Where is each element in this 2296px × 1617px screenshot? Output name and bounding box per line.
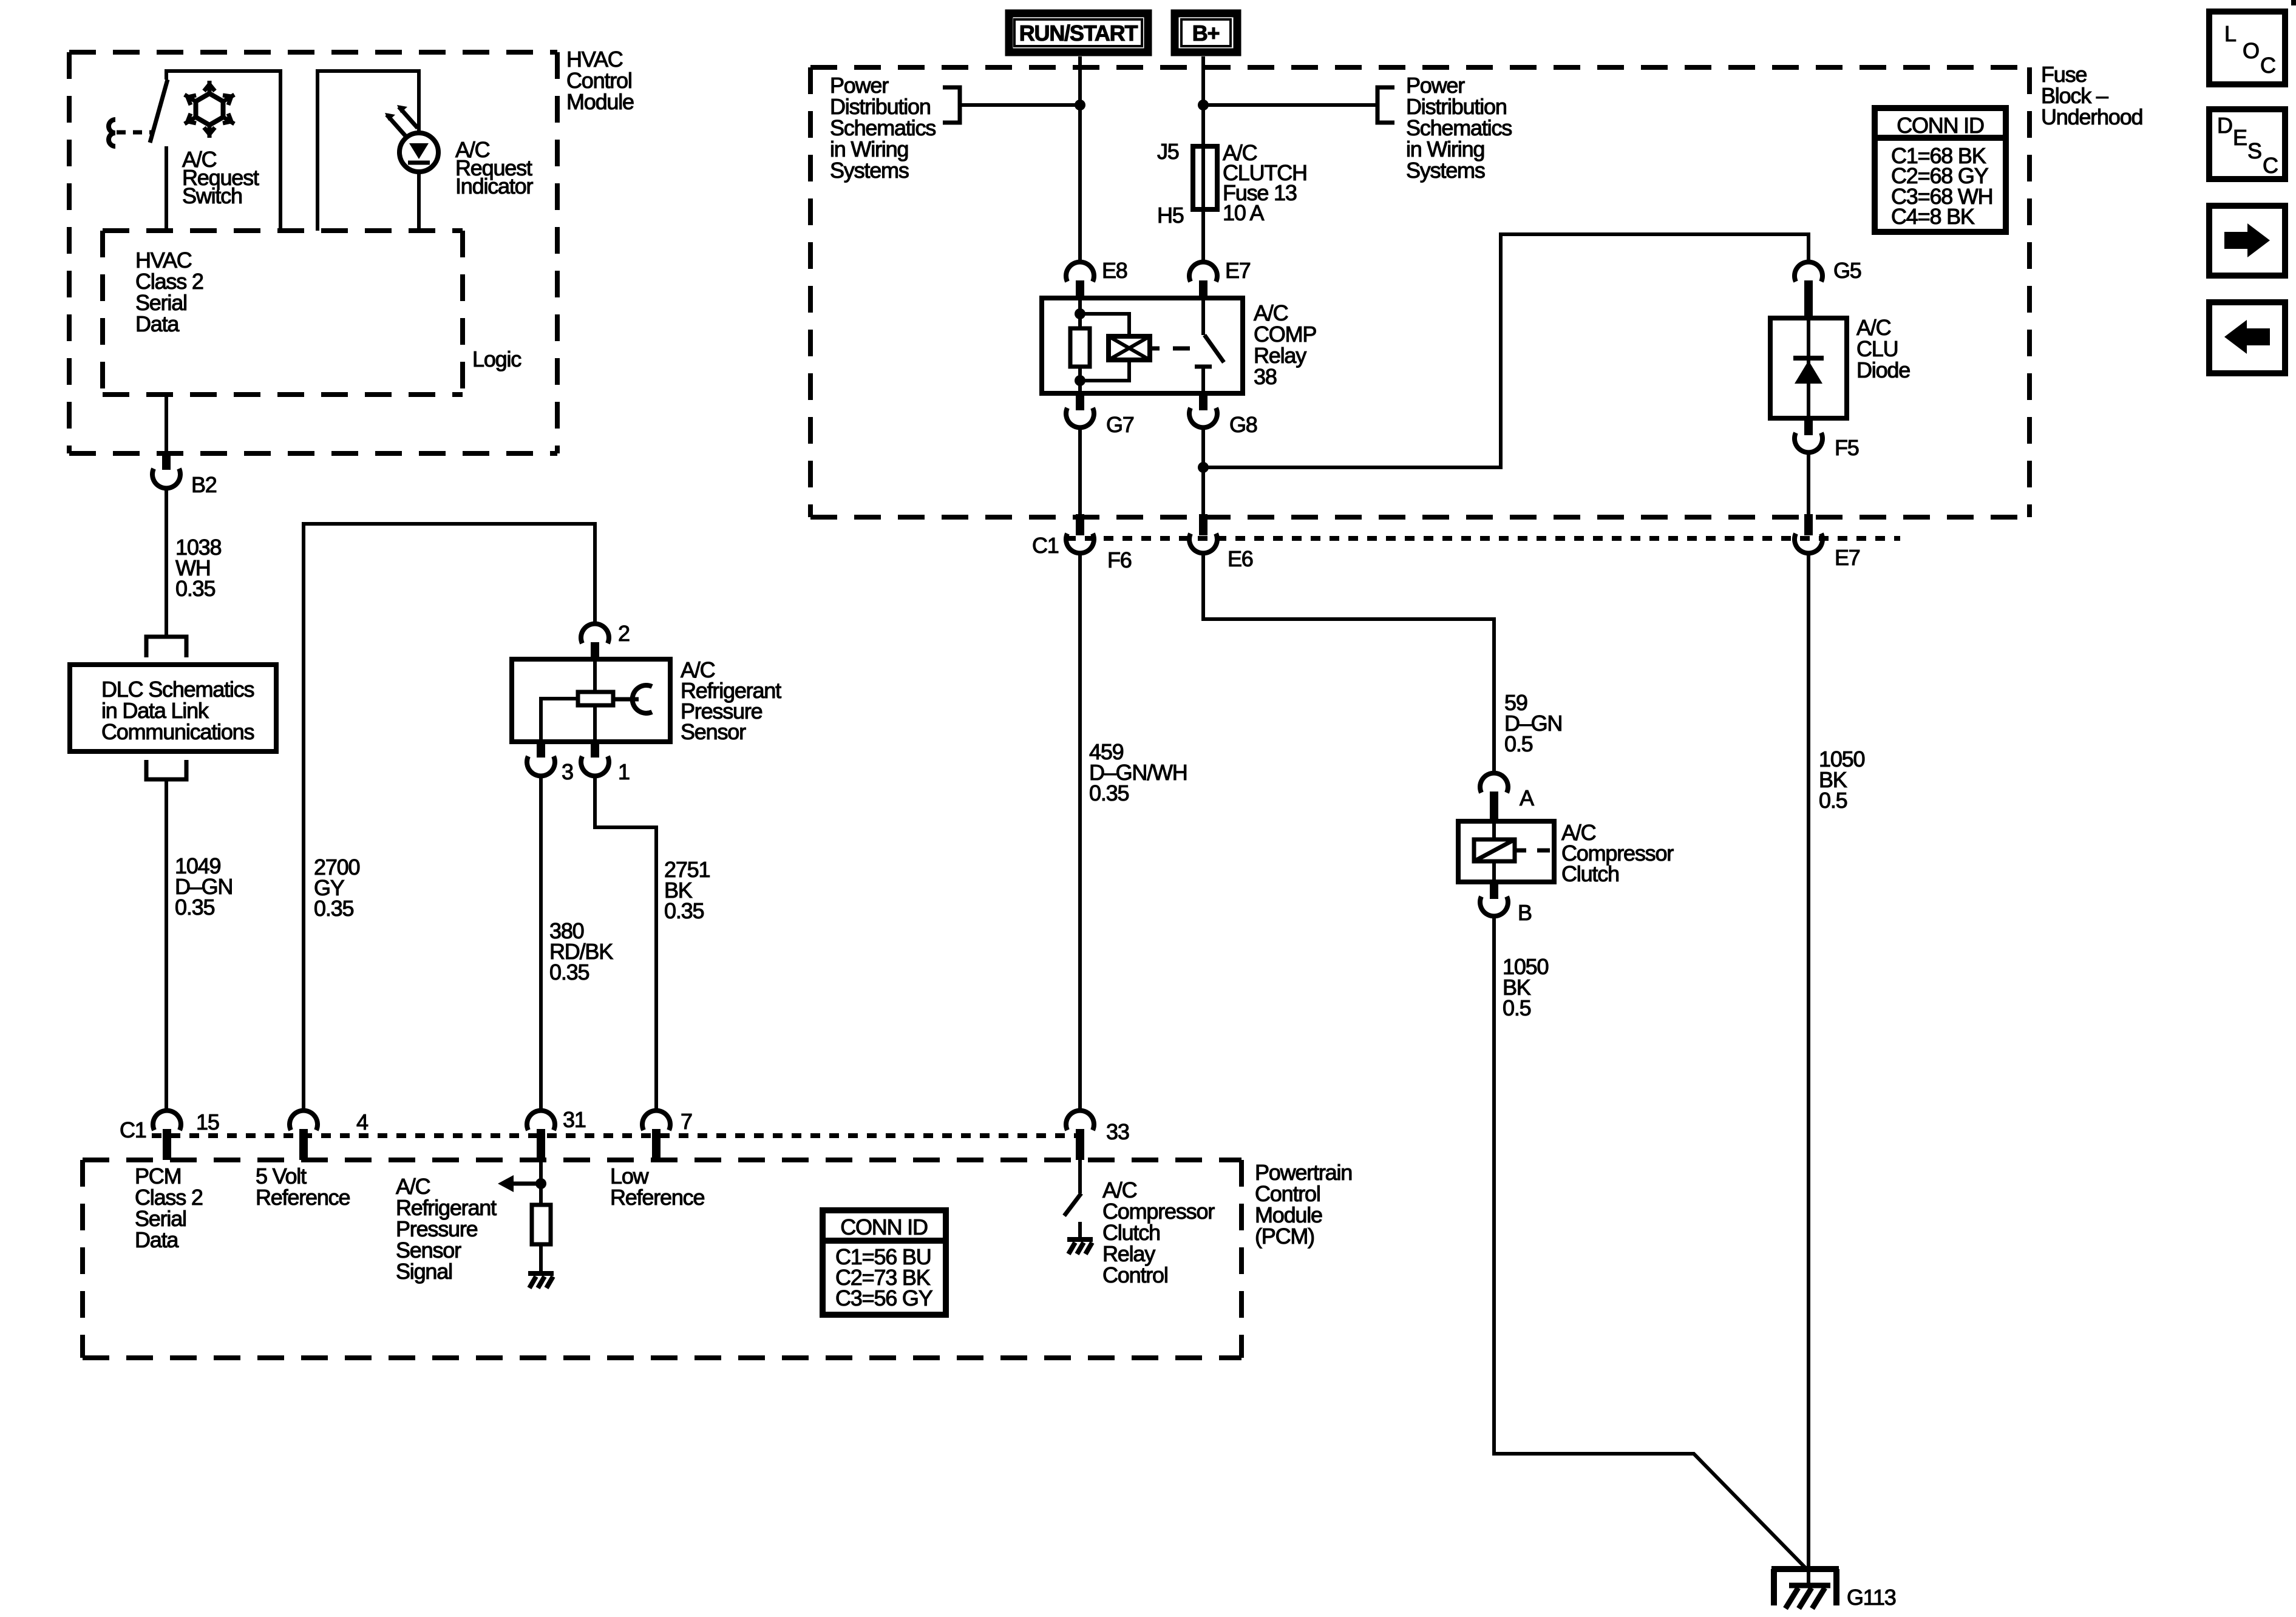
icon DESC bbox=[2209, 109, 2285, 179]
svg-text:3: 3 bbox=[562, 759, 573, 784]
wire 2700 GY 0.35 bbox=[304, 524, 595, 1111]
svg-text:O: O bbox=[2243, 38, 2259, 63]
wire pin 31 to resistor bbox=[539, 1160, 543, 1205]
svg-text:10 A: 10 A bbox=[1223, 200, 1264, 225]
svg-text:33: 33 bbox=[1106, 1119, 1129, 1144]
icon arrow right bbox=[2209, 206, 2285, 276]
connector E8 bbox=[1066, 258, 1127, 298]
junction G8 branch bbox=[1198, 462, 1209, 473]
A/C Refrigerant Pressure Sensor Signal label bbox=[396, 1174, 497, 1284]
corner mark bbox=[2291, 0, 2296, 5]
svg-text:0.35: 0.35 bbox=[175, 576, 215, 601]
wire RUN/START to E8 bbox=[1078, 56, 1082, 262]
connector G8 bbox=[1189, 393, 1257, 437]
svg-text:0.35: 0.35 bbox=[1089, 781, 1129, 805]
svg-text:E: E bbox=[2233, 125, 2247, 150]
fuse 13 A/C CLUTCH bbox=[1157, 139, 1307, 228]
svg-text:A: A bbox=[1520, 785, 1534, 810]
svg-text:G5: G5 bbox=[1833, 258, 1861, 283]
svg-text:0.35: 0.35 bbox=[314, 896, 353, 921]
svg-text:J5: J5 bbox=[1157, 139, 1179, 164]
5 Volt Reference label bbox=[256, 1164, 350, 1210]
svg-text:Data: Data bbox=[135, 1227, 179, 1252]
power feed RUN/START bbox=[1009, 13, 1148, 52]
power distribution right label bbox=[1203, 73, 1512, 183]
svg-text:E7: E7 bbox=[1835, 545, 1860, 570]
svg-text:F6: F6 bbox=[1107, 547, 1132, 572]
svg-text:C4=8 BK: C4=8 BK bbox=[1891, 204, 1975, 229]
connector 1 (sensor) bbox=[581, 742, 630, 784]
connector 31 bbox=[527, 1107, 586, 1160]
power feed B+ bbox=[1175, 13, 1237, 52]
fuse block in-line connector dotted line bbox=[1066, 536, 1900, 541]
A/C refrigerant pressure sensor bbox=[512, 657, 781, 744]
svg-text:G113: G113 bbox=[1847, 1585, 1896, 1610]
fuse block CONN ID table bbox=[1875, 108, 2006, 232]
off-page bracket below DLC bbox=[146, 760, 186, 779]
svg-text:RUN/START: RUN/START bbox=[1019, 21, 1138, 46]
connector E7 fuse bottom bbox=[1795, 534, 1860, 570]
Powertrain Control Module PCM label bbox=[1255, 1160, 1352, 1249]
connector F5 bbox=[1795, 418, 1859, 460]
svg-text:C: C bbox=[2263, 153, 2278, 178]
svg-text:38: 38 bbox=[1254, 364, 1277, 389]
wire G7 to F6 bbox=[1078, 427, 1082, 535]
arrow A/C refrigerant pressure sensor signal bbox=[498, 1175, 541, 1192]
svg-text:C1: C1 bbox=[120, 1117, 146, 1142]
svg-text:0.35: 0.35 bbox=[549, 960, 589, 985]
wire resistor to ground bbox=[539, 1244, 543, 1273]
ground G113 bbox=[1771, 1569, 1896, 1610]
A/C CLU diode bbox=[1770, 315, 1910, 418]
svg-text:E7: E7 bbox=[1225, 258, 1251, 283]
icon LOC bbox=[2209, 12, 2285, 84]
svg-text:1: 1 bbox=[618, 759, 630, 784]
junction pin 31 signal tap bbox=[535, 1178, 546, 1189]
junction RUN/START feed bbox=[1075, 100, 1085, 110]
svg-text:Reference: Reference bbox=[256, 1185, 350, 1210]
svg-text:E8: E8 bbox=[1102, 258, 1127, 283]
wire 1050 BK 0.5 right bbox=[1809, 553, 1864, 1569]
power distribution left label bbox=[830, 73, 1080, 183]
svg-text:0.5: 0.5 bbox=[1504, 731, 1533, 756]
fuse block underhood dashed box bbox=[810, 62, 2142, 517]
A/C COMP relay 38 bbox=[1042, 298, 1316, 393]
svg-text:15: 15 bbox=[196, 1110, 219, 1134]
connector A bbox=[1480, 773, 1534, 821]
wire G8 to E6 bbox=[1201, 427, 1205, 535]
svg-text:Diode: Diode bbox=[1856, 358, 1910, 382]
connector B bbox=[1480, 882, 1532, 925]
svg-text:0.5: 0.5 bbox=[1503, 995, 1531, 1020]
logic box bbox=[103, 231, 521, 395]
junction B+ feed bbox=[1198, 100, 1209, 110]
svg-text:(PCM): (PCM) bbox=[1255, 1224, 1314, 1249]
connector 7 bbox=[642, 1109, 692, 1160]
A/C compressor clutch bbox=[1458, 820, 1674, 886]
svg-text:C: C bbox=[2260, 53, 2275, 78]
connector G7 bbox=[1066, 393, 1134, 437]
A/C request indicator bbox=[318, 71, 533, 231]
svg-text:L: L bbox=[2224, 21, 2236, 46]
icon arrow left bbox=[2209, 302, 2285, 373]
svg-text:CONN ID: CONN ID bbox=[1897, 113, 1984, 138]
wire 2751 BK 0.35 bbox=[595, 776, 710, 1111]
label A/C compressor clutch relay control bbox=[1102, 1178, 1215, 1287]
svg-text:G8: G8 bbox=[1229, 412, 1257, 437]
svg-text:B2: B2 bbox=[191, 472, 217, 497]
svg-text:Sensor: Sensor bbox=[681, 719, 746, 744]
svg-text:Communications: Communications bbox=[101, 719, 254, 744]
svg-text:31: 31 bbox=[563, 1107, 586, 1132]
off-page bracket above DLC bbox=[146, 637, 186, 657]
svg-text:C3=56 GY: C3=56 GY bbox=[835, 1286, 933, 1310]
wire B+ to fuse to E7 bbox=[1201, 56, 1205, 262]
svg-text:S: S bbox=[2247, 138, 2261, 163]
DLC Schematics box bbox=[70, 665, 276, 751]
svg-text:E6: E6 bbox=[1228, 546, 1253, 571]
switch A/C compressor clutch relay control driver bbox=[1064, 1160, 1081, 1239]
svg-text:Module: Module bbox=[566, 89, 634, 114]
ground PCM internal (pin 31 branch) bbox=[528, 1273, 554, 1288]
svg-text:G7: G7 bbox=[1106, 412, 1134, 437]
svg-text:Clutch: Clutch bbox=[1561, 861, 1619, 886]
svg-text:Underhood: Underhood bbox=[2041, 104, 2142, 129]
wire G8 branch to G5 diode bbox=[1203, 234, 1809, 467]
wire 1050 BK 0.5 left bbox=[1494, 916, 1807, 1569]
svg-text:Logic: Logic bbox=[472, 347, 521, 371]
svg-text:Systems: Systems bbox=[830, 158, 909, 183]
HVAC Control Module dashed box bbox=[69, 47, 634, 453]
connector 2 (sensor) bbox=[581, 621, 630, 659]
svg-text:0.5: 0.5 bbox=[1819, 788, 1847, 813]
svg-text:Control: Control bbox=[1102, 1263, 1168, 1287]
wire 1038 WH 0.35 bbox=[166, 488, 221, 637]
svg-text:Signal: Signal bbox=[396, 1259, 452, 1284]
svg-text:CONN ID: CONN ID bbox=[840, 1215, 928, 1239]
Low Reference label bbox=[610, 1164, 704, 1210]
wire F5 to E7 bbox=[1807, 452, 1810, 535]
A/C request switch bbox=[109, 71, 280, 231]
svg-text:F5: F5 bbox=[1835, 435, 1859, 460]
connector G5 bbox=[1795, 258, 1861, 318]
svg-text:Indicator: Indicator bbox=[455, 174, 533, 198]
svg-text:Switch: Switch bbox=[182, 183, 242, 208]
svg-text:2: 2 bbox=[618, 621, 630, 646]
connector E6 bbox=[1189, 534, 1253, 571]
PCM in-line connector dotted line bbox=[152, 1133, 1093, 1138]
svg-text:B: B bbox=[1518, 900, 1532, 925]
HVAC Class 2 Serial Data label bbox=[135, 248, 203, 336]
svg-text:H5: H5 bbox=[1157, 203, 1184, 228]
connector 3 (sensor) bbox=[527, 742, 573, 784]
svg-text:Data: Data bbox=[135, 311, 180, 336]
connector 33 bbox=[1066, 1111, 1129, 1160]
wire 1049 D-GN 0.35 bbox=[166, 779, 233, 1111]
connector B2 bbox=[152, 453, 217, 497]
connector 15 bbox=[120, 1110, 219, 1160]
svg-text:7: 7 bbox=[681, 1109, 692, 1134]
ground PCM internal (pin 33 branch) bbox=[1067, 1239, 1093, 1254]
wire 459 D-GN/WH 0.35 bbox=[1080, 553, 1187, 1111]
connector E7 relay bbox=[1189, 258, 1251, 298]
PCM dashed box bbox=[83, 1160, 1241, 1358]
wire 59 D-GN 0.5 bbox=[1203, 553, 1562, 773]
svg-text:D: D bbox=[2217, 113, 2232, 138]
PCM CONN ID table bbox=[823, 1210, 946, 1315]
connector 4 bbox=[290, 1110, 368, 1160]
svg-text:Reference: Reference bbox=[610, 1185, 704, 1210]
connector C1 F6 bbox=[1032, 533, 1132, 572]
wire 380 RD/BK 0.35 bbox=[541, 776, 613, 1111]
svg-text:0.35: 0.35 bbox=[664, 898, 704, 923]
wire logic box to B2 bbox=[165, 395, 168, 453]
svg-text:B+: B+ bbox=[1192, 21, 1220, 46]
PCM Class 2 Serial Data label bbox=[135, 1164, 203, 1252]
svg-text:Systems: Systems bbox=[1406, 158, 1485, 183]
resistor PCM internal pull-down bbox=[532, 1205, 551, 1244]
svg-text:0.35: 0.35 bbox=[175, 895, 214, 920]
svg-text:4: 4 bbox=[356, 1110, 368, 1134]
svg-text:C1: C1 bbox=[1032, 533, 1059, 558]
